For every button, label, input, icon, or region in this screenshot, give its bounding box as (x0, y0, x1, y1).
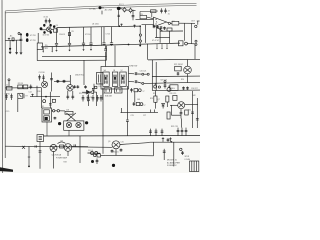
svg-text:17: 17 (143, 91, 145, 93)
svg-text:R31: R31 (188, 110, 191, 112)
svg-text:2N109 R12: 2N109 R12 (75, 75, 84, 77)
svg-text:R24: R24 (181, 79, 184, 81)
svg-text:POWER AMP: POWER AMP (56, 157, 68, 160)
svg-text:MODEL 10: MODEL 10 (167, 160, 178, 162)
svg-text:B11: B11 (45, 48, 48, 50)
svg-text:R7: R7 (26, 96, 28, 98)
svg-text:R29: R29 (150, 98, 153, 100)
svg-text:47 25V: 47 25V (30, 40, 36, 42)
svg-text:47 25V: 47 25V (30, 35, 36, 37)
svg-text:SCHEMATIC: SCHEMATIC (167, 164, 178, 167)
svg-text:TONE SW: TONE SW (129, 65, 138, 67)
svg-text:C9 R10: C9 R10 (39, 72, 45, 74)
svg-text:C31: C31 (121, 141, 124, 143)
svg-text:25: 25 (168, 13, 170, 15)
svg-text:R2 R3: R2 R3 (18, 83, 23, 85)
svg-text:115V 60: 115V 60 (43, 34, 50, 36)
svg-text:S1 F1: S1 F1 (119, 4, 124, 6)
svg-text:AC AMPLIFIER: AC AMPLIFIER (167, 161, 181, 164)
svg-text:J1: J1 (6, 84, 8, 86)
svg-text:REG: REG (171, 88, 175, 90)
svg-text:R23 C23: R23 C23 (161, 80, 167, 82)
svg-text:47: 47 (168, 11, 170, 13)
svg-text:C15: C15 (6, 111, 9, 113)
svg-text:S2A S2B: S2A S2B (105, 94, 113, 97)
svg-text:C14: C14 (29, 92, 32, 94)
svg-text:R34 0.5: R34 0.5 (113, 152, 119, 154)
svg-text:1200 25: 1200 25 (59, 34, 65, 36)
svg-text:47 150: 47 150 (85, 34, 90, 36)
svg-text:117 VAC: 117 VAC (89, 8, 97, 11)
svg-text:05 05: 05 05 (44, 17, 49, 19)
svg-text:R33: R33 (64, 161, 67, 163)
svg-text:R16: R16 (38, 91, 41, 93)
svg-text:Q8 2N301A: Q8 2N301A (52, 154, 62, 157)
svg-text:17: 17 (144, 105, 146, 107)
svg-text:R5: R5 (72, 31, 74, 33)
svg-text:R26 C25: R26 C25 (170, 93, 177, 95)
svg-text:R13 C16 R14 C17: R13 C16 R14 C17 (79, 93, 94, 95)
svg-text:C8: C8 (56, 25, 58, 27)
svg-text:AC LINE: AC LINE (105, 9, 113, 12)
svg-text:R32 C28: R32 C28 (171, 126, 178, 128)
svg-text:Q7: Q7 (158, 99, 160, 101)
svg-text:R9: R9 (141, 14, 143, 16)
svg-text:C27: C27 (143, 115, 146, 117)
svg-text:U4 1200: U4 1200 (92, 23, 99, 25)
svg-text:D5 D6: D5 D6 (88, 150, 93, 152)
svg-text:R26: R26 (153, 93, 156, 95)
svg-text:K1: K1 (42, 106, 44, 108)
svg-text:C24 R27: C24 R27 (191, 88, 198, 90)
svg-text:8 OHM: 8 OHM (185, 159, 191, 161)
svg-text:R21 2N107: R21 2N107 (174, 64, 183, 66)
svg-text:600: 600 (172, 21, 175, 23)
svg-text:Q9: Q9 (108, 141, 110, 143)
svg-text:C20 C21: C20 C21 (140, 71, 147, 73)
svg-text:C7 25: C7 25 (106, 33, 111, 35)
svg-text:C2 R6: C2 R6 (5, 94, 10, 96)
svg-text:C18: C18 (66, 109, 69, 111)
svg-text:C23: C23 (131, 115, 134, 117)
svg-text:C30: C30 (60, 141, 63, 143)
svg-text:47 47 47: 47 47 47 (152, 40, 159, 42)
